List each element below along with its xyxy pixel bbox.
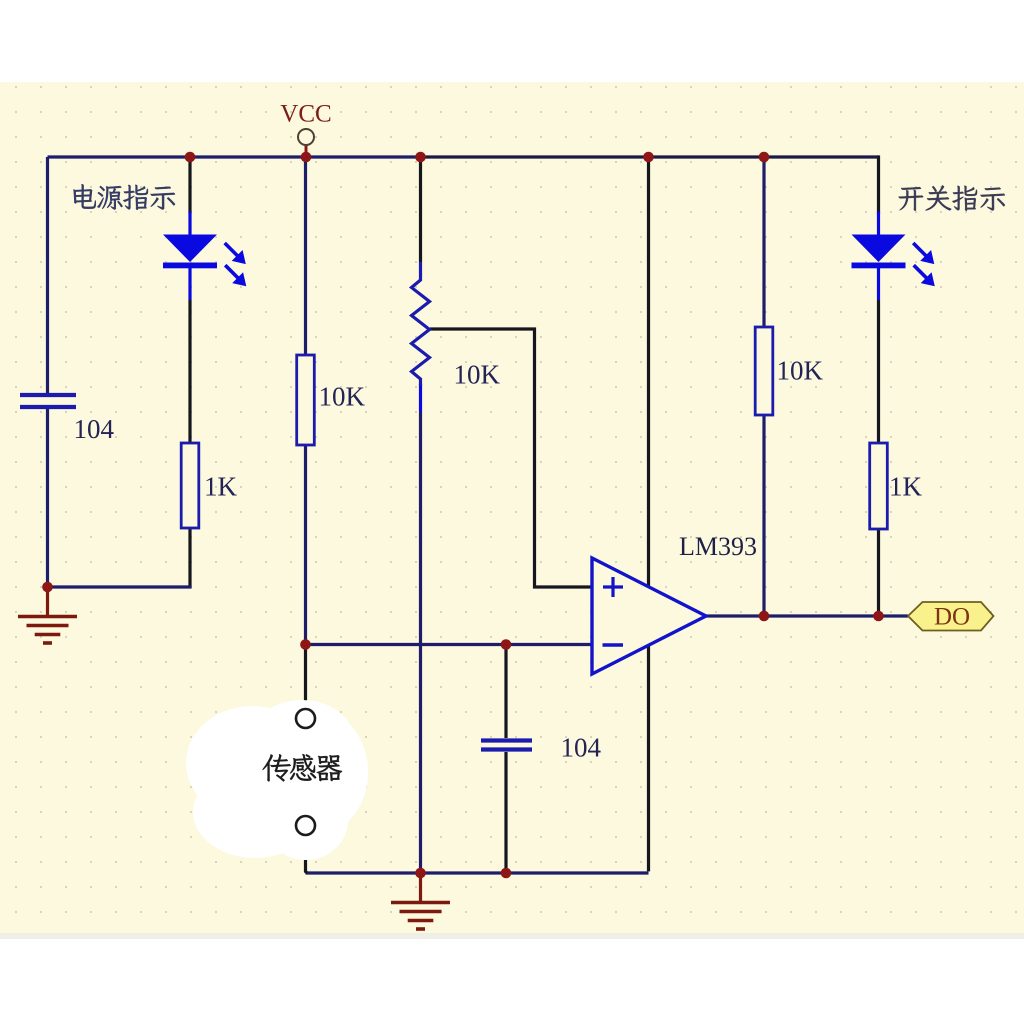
wire LED2 to R4	[877, 300, 880, 443]
wire VCC rail left	[48, 155, 421, 158]
svg-text:1K: 1K	[204, 472, 238, 502]
junction	[415, 868, 426, 879]
wire VCC rail corner down to LED2	[877, 155, 880, 213]
wire rail to R2	[304, 157, 307, 355]
junction	[415, 152, 426, 163]
wire R1 to ground row	[188, 528, 191, 587]
wire rail to R3	[762, 157, 765, 327]
svg-text:LM393: LM393	[679, 532, 757, 561]
svg-text:DO: DO	[934, 604, 970, 631]
potentiometer RP1 10K	[412, 262, 430, 386]
wire C1 to ground node	[46, 409, 49, 587]
wire R4 to output row	[877, 529, 880, 616]
capacitor C1 104	[20, 395, 76, 407]
junction	[501, 639, 512, 650]
wire R3 to output row	[762, 415, 765, 616]
resistor R1 1K	[181, 443, 199, 528]
LED D1 power indicator	[163, 212, 245, 301]
wire sensor pin2 to ground rail	[306, 835, 308, 873]
op-amp U1 LM393	[592, 558, 706, 674]
wire rail to RP1	[419, 157, 422, 262]
wire RP1 to ground rail	[419, 412, 422, 873]
wire RP1 lower lead	[419, 384, 422, 412]
resistor R3 10K	[755, 327, 773, 415]
svg-text:104: 104	[561, 733, 602, 763]
ground GND2	[391, 874, 450, 929]
junction	[42, 582, 53, 593]
wire ground row left	[48, 585, 192, 588]
svg-text:10K: 10K	[777, 356, 824, 386]
label "开关指示"	[899, 185, 1005, 210]
svg-text:10K: 10K	[454, 360, 501, 390]
label "传感器"	[262, 754, 342, 781]
junction	[301, 152, 312, 163]
wire VCC rail right	[421, 155, 879, 158]
wire R2 to inverting node	[304, 445, 307, 645]
label "电源指示"	[73, 184, 175, 210]
junction	[759, 611, 770, 622]
resistor R2 10K	[297, 355, 315, 445]
junction	[873, 611, 884, 622]
DO output flag	[908, 602, 994, 631]
wire C2 to ground rail	[504, 752, 507, 873]
sensor terminal pin 1	[296, 709, 315, 728]
wire node to C2	[504, 645, 507, 739]
junction	[501, 868, 512, 879]
svg-text:VCC: VCC	[280, 101, 331, 128]
LED D2 switch indicator	[852, 212, 934, 301]
sensor area white blob	[186, 700, 368, 860]
wire inverting input row	[306, 643, 593, 646]
wire node to sensor pin1	[304, 645, 307, 710]
capacitor C2 104	[481, 741, 532, 750]
wire RP1 wiper to op-amp + input	[430, 329, 592, 587]
wire op-amp output to DO	[706, 614, 908, 617]
svg-text:104: 104	[74, 414, 115, 444]
wire left rail to C1	[46, 157, 49, 393]
svg-text:10K: 10K	[319, 382, 366, 412]
svg-text:1K: 1K	[889, 472, 923, 502]
VCC power port	[298, 129, 314, 152]
sensor terminal pin 2	[296, 816, 315, 835]
junction	[185, 152, 196, 163]
junction	[300, 639, 311, 650]
resistor R4 1K	[870, 443, 888, 529]
wire ground rail	[306, 871, 649, 874]
wire LED1 to R1	[188, 300, 191, 443]
wire rail to LED1	[188, 157, 191, 214]
ground GND1	[18, 588, 77, 643]
wire VCC rail to ground rail mid drop	[647, 157, 650, 871]
junction	[759, 152, 770, 163]
junction	[643, 152, 654, 163]
